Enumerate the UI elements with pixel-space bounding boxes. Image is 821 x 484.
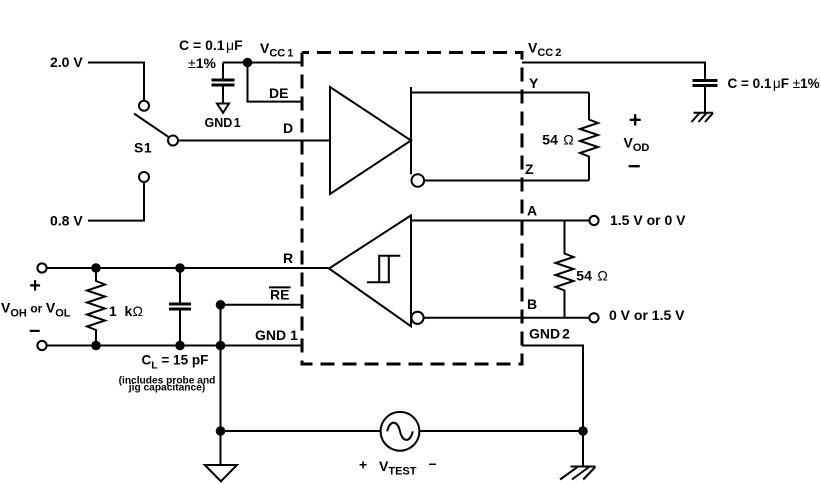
resistor 54 ohm (between A and B) [556, 221, 574, 318]
capacitor CL 15pF [169, 268, 191, 346]
label - (VOD) [628, 153, 641, 178]
svg-text:GND1: GND1 [205, 116, 241, 130]
svg-text:0 V or 1.5 V: 0 V or 1.5 V [609, 307, 685, 323]
label + VTEST - [359, 456, 437, 478]
dashed device-under-test box [302, 53, 522, 365]
label A [527, 203, 537, 219]
ground GND1 arrow (under C) [217, 104, 229, 113]
wire: 2.0 V lead to switch upper contact [88, 63, 144, 101]
node dot RE junction [216, 300, 226, 310]
svg-text:B: B [527, 296, 537, 312]
hysteresis symbol [367, 256, 400, 283]
label Y [529, 75, 539, 91]
label jig capacitance) [128, 382, 205, 393]
wire RE [221, 304, 303, 306]
label B [527, 296, 537, 312]
wire GND1 [47, 345, 302, 347]
svg-text:−: − [29, 320, 41, 342]
wire Z [425, 180, 590, 182]
switch S1 upper contact [139, 101, 149, 111]
driver inverting bubble [412, 174, 425, 187]
receiver inverting bubble [411, 312, 423, 324]
svg-text:Y: Y [529, 75, 539, 91]
label D [283, 120, 293, 136]
svg-text:0.8 V: 0.8 V [50, 213, 83, 229]
wire RE-GND1-VTEST vertical [220, 305, 222, 465]
wire: 0.8 V lead to switch lower contact [88, 182, 144, 220]
svg-text:+: + [29, 275, 41, 297]
svg-text:C = 0.1μF: C = 0.1μF [179, 37, 243, 53]
svg-text:R: R [283, 250, 293, 266]
label 0 V or 1.5 V [609, 307, 685, 323]
node dot GND1 / 1k [91, 341, 101, 351]
node dot R wire / CL cap [175, 263, 185, 273]
terminal B [589, 313, 598, 322]
svg-text:+: + [629, 107, 642, 132]
label C = 0.1uF +/-1% [728, 76, 820, 91]
terminal A [589, 216, 598, 225]
svg-text:GND1: GND1 [255, 327, 298, 343]
svg-text:Z: Z [525, 161, 534, 177]
wire VTEST left [221, 430, 381, 432]
switch S1 pole contact [168, 136, 178, 146]
svg-text:−: − [628, 153, 641, 178]
wire VCC2 [522, 63, 705, 80]
ground (chassis) bottom right [560, 467, 596, 480]
wire B [424, 317, 590, 319]
switch S1 blade [134, 114, 169, 138]
node dot VTEST left junction [216, 426, 226, 436]
label VCC2 [528, 40, 561, 60]
svg-text:C = 0.1μF ±1%: C = 0.1μF ±1% [728, 76, 820, 91]
label DE [269, 85, 288, 101]
capacitor C 0.1uF (VCC1 bypass) [212, 63, 235, 104]
svg-text:jig capacitance): jig capacitance) [128, 382, 205, 393]
label Z [525, 161, 534, 177]
label 2.0 V [50, 54, 83, 70]
label + (VOH) [29, 275, 41, 297]
svg-text:±1%: ±1% [188, 55, 216, 71]
svg-text:RE: RE [270, 287, 289, 303]
wire A [411, 220, 589, 222]
label GND1 (pin) [255, 327, 298, 343]
label C = 0.1 uF [179, 37, 243, 53]
wire VCC1 [223, 62, 302, 64]
label R [283, 250, 293, 266]
label VOD [624, 135, 650, 155]
label CL = 15 pF [142, 353, 209, 372]
ground (signal ground triangle) [205, 465, 237, 481]
label RE (with overline) [269, 287, 291, 303]
op-amp receiver triangle [329, 215, 411, 326]
label 54 ohm (Y-Z) [542, 132, 573, 148]
label - (VOL) [29, 320, 41, 342]
ground (chassis) under VCC2 cap [692, 113, 714, 122]
wire DE [248, 63, 303, 102]
wire D input [178, 140, 330, 142]
resistor 54 ohm (between Y and Z) [580, 93, 598, 181]
wire R [47, 267, 329, 269]
label 1.5 V or 0 V [610, 212, 686, 228]
label 1 kOhm [109, 303, 143, 319]
op-amp driver triangle [330, 87, 411, 194]
wire VTEST right [419, 430, 583, 432]
switch S1 lower contact [139, 172, 149, 182]
svg-text:2.0 V: 2.0 V [50, 54, 83, 70]
source VTEST (AC) [381, 412, 420, 451]
svg-text:GND2: GND2 [529, 326, 570, 342]
label 0.8 V [50, 213, 83, 229]
node dot VTEST right junction [578, 426, 588, 436]
svg-text:D: D [283, 120, 293, 136]
label (includes probe and [119, 375, 216, 386]
svg-text:−: − [429, 456, 437, 472]
label VCC1 [260, 40, 293, 60]
capacitor C 0.1uF (VCC2 bypass) [693, 81, 718, 113]
svg-text:A: A [527, 203, 537, 219]
node VCC1 junction dot [243, 58, 253, 68]
label VOH or VOL [1, 300, 71, 320]
node dot R wire / 1k resistor [91, 263, 101, 273]
wire GND2 [522, 346, 583, 467]
svg-text:1.5 V or 0 V: 1.5 V or 0 V [610, 212, 686, 228]
resistor 1 kOhm [87, 268, 105, 346]
label + (VOD) [629, 107, 642, 132]
label GND 1 (under C) [205, 116, 241, 130]
label S 1 [134, 140, 152, 156]
wire Y [411, 92, 589, 94]
driver output stem [410, 87, 412, 174]
label 54 ohm (A-B) [576, 268, 608, 284]
svg-text:DE: DE [269, 85, 288, 101]
terminal VOH/VOL top [37, 263, 46, 272]
label +/-1% [188, 55, 216, 71]
label GND2 [529, 326, 570, 342]
svg-text:1kΩ: 1kΩ [109, 303, 143, 319]
terminal VOH/VOL bottom [37, 341, 46, 350]
node dot GND1 junction [216, 341, 226, 351]
svg-text:S1: S1 [134, 140, 152, 156]
svg-text:+: + [359, 457, 367, 473]
node dot GND1 / CL [175, 341, 185, 351]
